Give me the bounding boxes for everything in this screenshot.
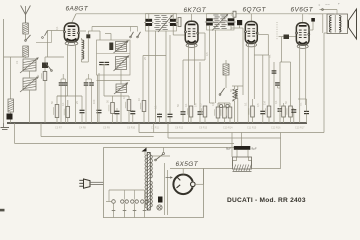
- svg-text:0,1: 0,1: [61, 102, 65, 106]
- svg-text:C13 R17: C13 R17: [295, 126, 305, 129]
- svg-text:C2: C2: [36, 74, 40, 78]
- svg-text:C1: C1: [15, 60, 19, 64]
- svg-text:6V6GT: 6V6GT: [291, 7, 314, 14]
- svg-text:0,5: 0,5: [122, 95, 126, 99]
- svg-text:8µF: 8µF: [226, 147, 231, 151]
- svg-text:C5 R9: C5 R9: [103, 126, 110, 129]
- svg-text:1M: 1M: [194, 103, 198, 107]
- svg-text:0,5: 0,5: [211, 102, 215, 106]
- svg-text:0,5: 0,5: [256, 103, 260, 107]
- svg-text:C3 R7: C3 R7: [55, 126, 62, 129]
- svg-text:0,1: 0,1: [154, 105, 158, 109]
- svg-text:6Q7GT: 6Q7GT: [243, 6, 267, 13]
- svg-text:C10 R14: C10 R14: [223, 126, 233, 129]
- svg-text:C9 R13: C9 R13: [199, 126, 208, 129]
- svg-text:C6 R10: C6 R10: [127, 126, 136, 129]
- svg-text:0,1: 0,1: [244, 102, 248, 106]
- svg-text:1M: 1M: [218, 102, 222, 106]
- svg-text:0,1: 0,1: [268, 54, 272, 58]
- svg-text:C8 R12: C8 R12: [175, 126, 184, 129]
- svg-text:6X5GT: 6X5GT: [176, 161, 199, 168]
- svg-text:0,1: 0,1: [55, 26, 59, 30]
- svg-text:C7 R11: C7 R11: [151, 126, 160, 129]
- svg-text:+: +: [338, 2, 340, 6]
- svg-text:1M: 1M: [263, 101, 267, 105]
- svg-text:C12 R16: C12 R16: [271, 126, 281, 129]
- svg-text:6K7GT: 6K7GT: [184, 7, 207, 14]
- svg-text:0,5: 0,5: [205, 52, 209, 56]
- svg-text:6A8GT: 6A8GT: [66, 5, 89, 12]
- svg-text:DUCATI - Mod. RR 2403: DUCATI - Mod. RR 2403: [227, 197, 306, 204]
- svg-text:0,5: 0,5: [199, 103, 203, 107]
- svg-text:0,1: 0,1: [184, 103, 188, 107]
- svg-text:C4 R8: C4 R8: [79, 126, 86, 129]
- svg-text:0,1: 0,1: [299, 102, 303, 106]
- svg-text:8µF: 8µF: [252, 147, 257, 151]
- svg-text:∼∼: ∼∼: [325, 3, 330, 7]
- svg-text:100: 100: [92, 99, 96, 104]
- svg-text:C11 R15: C11 R15: [247, 126, 257, 129]
- svg-text:0,1: 0,1: [274, 100, 278, 104]
